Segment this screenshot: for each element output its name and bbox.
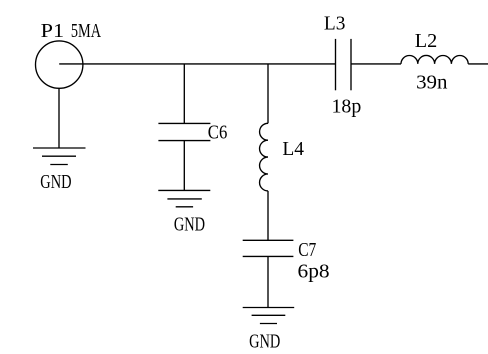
svg-text:5MA: 5MA: [71, 20, 102, 42]
svg-text:L2: L2: [415, 30, 438, 52]
capacitor L3 (series): [336, 39, 352, 90]
svg-text:GND: GND: [174, 213, 205, 235]
label L4: [282, 138, 304, 160]
ground under C7: [243, 308, 295, 324]
inductor L2: [401, 55, 468, 63]
ground under C6: [158, 190, 210, 206]
ground under P1: [33, 148, 86, 165]
wire: L4 bottom to C7 top plate: [267, 191, 269, 240]
svg-text:C7: C7: [298, 239, 316, 261]
wire: P1 bottom to ground: [58, 88, 60, 148]
capacitor C7: [243, 240, 294, 256]
wire: bus to C6 top plate: [183, 64, 185, 124]
current source P1 circle: [36, 41, 83, 88]
label C6: [208, 122, 228, 144]
wire: main bus from P1 center to L3 left plate: [59, 63, 335, 65]
label C7: [298, 239, 316, 261]
svg-text:GND: GND: [40, 171, 71, 193]
label GND (C6 ground): [174, 213, 205, 235]
svg-text:L4: L4: [282, 138, 304, 160]
wire: bus to L4 top: [267, 64, 269, 123]
label GND (P1 ground): [40, 171, 71, 193]
wire: C6 bottom plate to ground: [183, 141, 185, 191]
svg-text:L3: L3: [324, 13, 346, 35]
label GND (C7 ground): [249, 331, 280, 353]
svg-text:P1: P1: [41, 20, 64, 42]
inductor L4: [260, 123, 268, 191]
svg-text:GND: GND: [249, 331, 280, 353]
label L3: [324, 13, 346, 35]
label L2: [415, 30, 438, 52]
label P1 5MA: [41, 20, 102, 42]
wire: L2 to right edge: [468, 63, 488, 65]
svg-text:39n: 39n: [416, 71, 447, 93]
label 18p: [332, 95, 362, 117]
wire: L3 right plate to L2: [351, 63, 401, 65]
svg-text:C6: C6: [208, 122, 228, 144]
svg-text:6p8: 6p8: [298, 260, 330, 282]
svg-text:18p: 18p: [332, 95, 362, 117]
capacitor C6: [158, 123, 210, 140]
label 39n: [416, 71, 447, 93]
wire: C7 bottom plate to ground: [267, 256, 269, 307]
label 6p8: [298, 260, 330, 282]
